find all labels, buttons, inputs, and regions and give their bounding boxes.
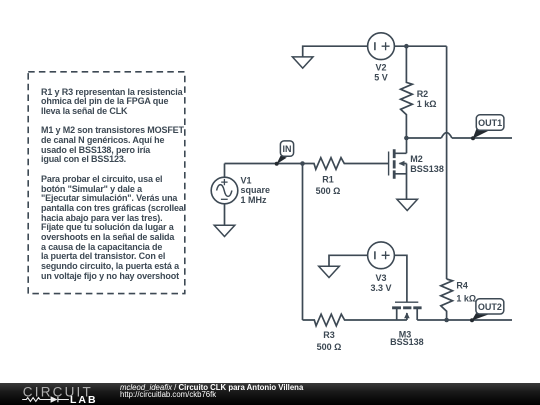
R1 value label — [316, 175, 341, 196]
R4 value label — [456, 281, 476, 304]
wire IN node down to R3 — [302, 164, 304, 321]
svg-text:3.3 V: 3.3 V — [370, 283, 391, 293]
wire M3 drain to OUT2 — [417, 319, 512, 321]
footer caption text — [120, 384, 303, 399]
svg-text:5 V: 5 V — [374, 72, 388, 82]
OUT1 flag attach dot — [471, 136, 475, 140]
wire OUT1 with hop over 5V rail — [406, 133, 512, 138]
svg-text:R1: R1 — [322, 175, 334, 185]
OUT2 flag pointer — [472, 313, 488, 320]
transistor M2 (NMOS BSS138) — [389, 138, 407, 199]
svg-text:1 MHz: 1 MHz — [241, 195, 268, 205]
V1 value label — [241, 176, 271, 205]
OUT2 flag attach dot — [470, 318, 474, 322]
svg-text:V1: V1 — [241, 176, 252, 186]
IN flag pointer — [276, 156, 286, 165]
R3 value label — [317, 330, 342, 352]
wire V3 left to ground — [329, 255, 368, 266]
wire V2 right to 5V rail — [394, 45, 446, 47]
resistor R2 — [401, 46, 413, 138]
resistor R1 — [303, 158, 389, 170]
wire V1 top to IN net — [224, 164, 226, 178]
svg-text:square: square — [241, 185, 271, 195]
R2 value label — [417, 89, 437, 109]
M3 label — [390, 330, 424, 347]
svg-text:OUT2: OUT2 — [478, 302, 502, 312]
voltage source V2 (5 V) — [368, 33, 395, 60]
ground left of V3 — [319, 266, 340, 277]
svg-text:1 kΩ: 1 kΩ — [456, 294, 476, 304]
CircuitLab logo — [0, 383, 110, 405]
footer bar — [0, 383, 540, 405]
svg-text:V3: V3 — [375, 273, 386, 283]
svg-text:1 kΩ: 1 kΩ — [417, 99, 437, 109]
note text — [41, 88, 184, 282]
OUT1 flag pointer — [473, 129, 489, 139]
ground left of V2 — [292, 57, 313, 68]
svg-text:500 Ω: 500 Ω — [316, 186, 341, 196]
M2 label — [410, 154, 444, 174]
svg-text:OUT1: OUT1 — [478, 118, 502, 128]
transistor M3 (NMOS BSS138, rotated) — [392, 302, 422, 320]
junction dot at R2 top — [404, 44, 409, 49]
junction dot at R4 bottom — [444, 318, 449, 323]
svg-text:BSS138: BSS138 — [390, 337, 424, 347]
node OUT1 junction dot — [404, 136, 409, 141]
ground below M2 — [397, 199, 418, 210]
svg-text:BSS138: BSS138 — [410, 164, 444, 174]
svg-text:R4: R4 — [456, 281, 468, 291]
ground below V1 — [214, 225, 235, 236]
resistor R4 — [441, 279, 453, 320]
wire V3 right to M3 gate — [394, 255, 407, 301]
wire IN horizontal — [225, 163, 303, 165]
note box dashed border — [28, 72, 185, 294]
svg-text:M2: M2 — [410, 154, 423, 164]
svg-text:V2: V2 — [375, 62, 386, 72]
V2 value label — [374, 62, 388, 82]
svg-text:IN: IN — [283, 144, 292, 154]
net flag OUT1 — [476, 115, 504, 131]
svg-text:LAB: LAB — [70, 394, 98, 405]
voltage source V3 (3.3 V) — [368, 242, 395, 269]
V3 value label — [370, 273, 391, 293]
net flag IN — [280, 141, 293, 156]
node IN junction dot — [300, 161, 305, 166]
net flag OUT2 — [476, 299, 504, 314]
svg-text:R2: R2 — [417, 89, 429, 99]
resistor R3 — [303, 314, 407, 326]
wire V2 left to ground — [303, 46, 368, 56]
svg-text:R3: R3 — [323, 330, 335, 340]
5V rail vertical wire down to R4 — [446, 46, 448, 279]
voltage source V1 (square 1 MHz) — [211, 177, 238, 204]
IN flag attach dot — [275, 162, 279, 166]
wire V1 bottom to ground — [224, 204, 226, 225]
svg-text:500 Ω: 500 Ω — [317, 342, 342, 352]
